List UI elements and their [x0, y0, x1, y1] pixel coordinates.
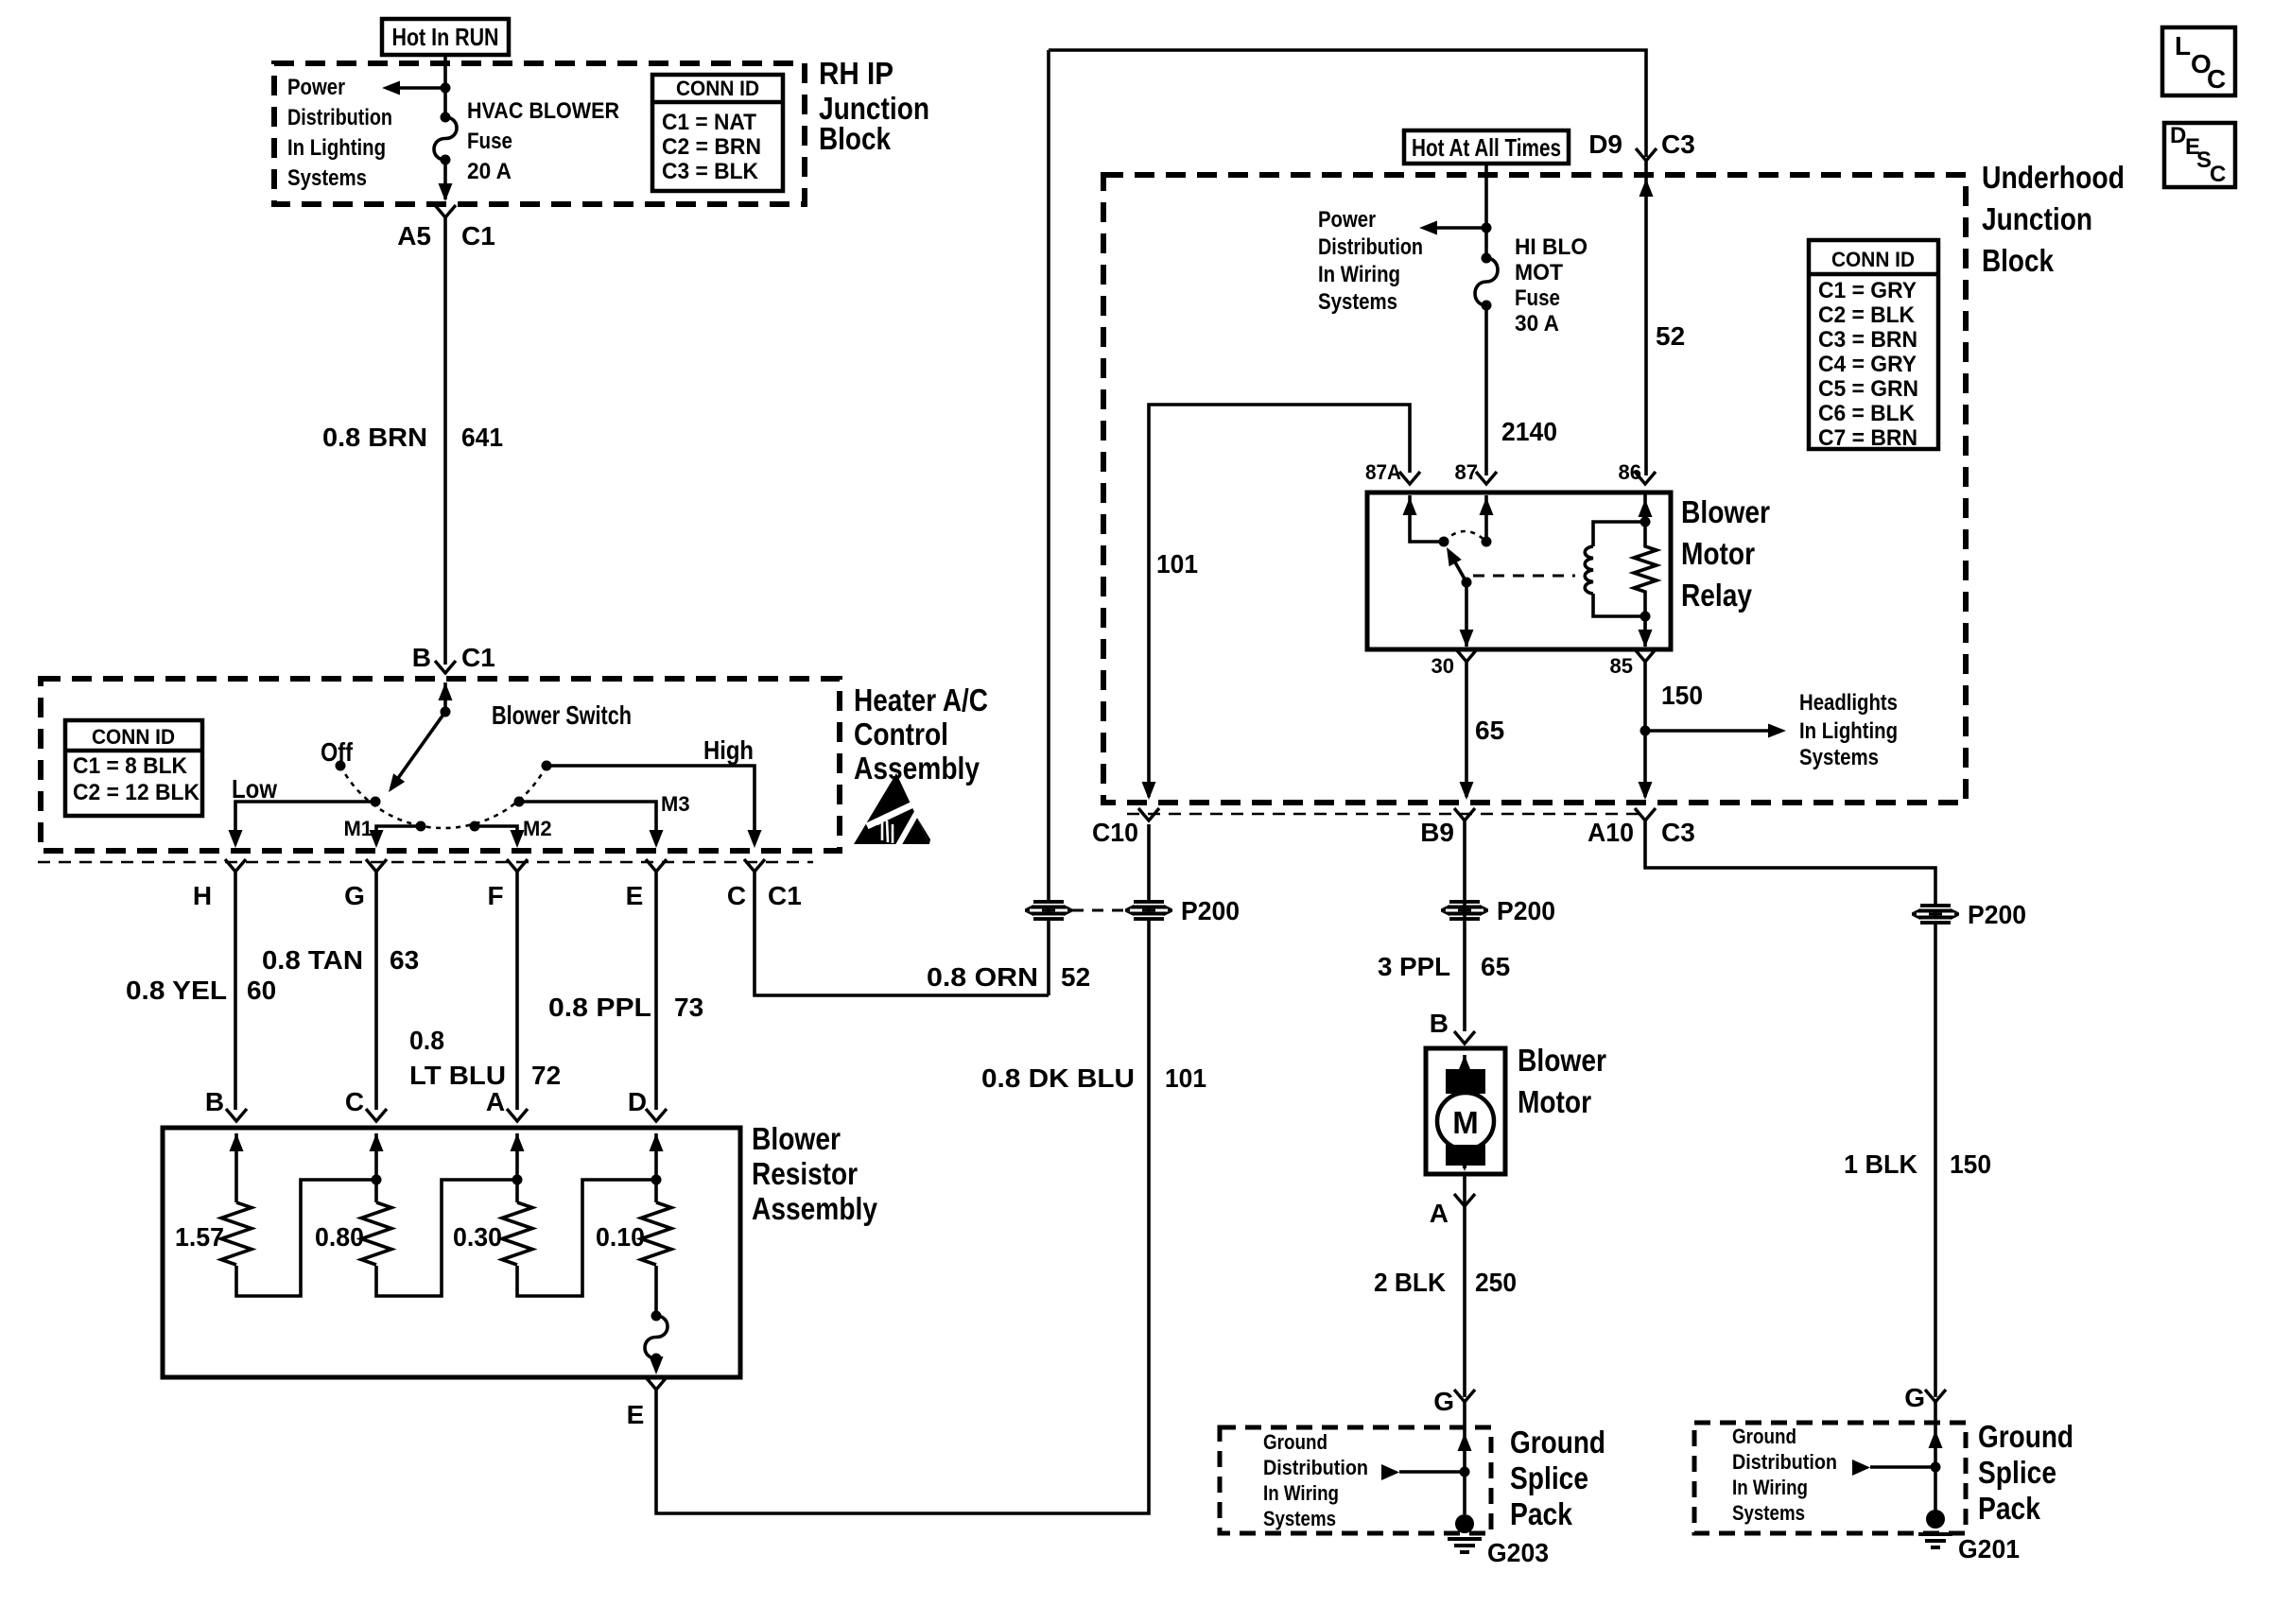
svg-text:65: 65	[1481, 952, 1510, 981]
svg-text:Distribution: Distribution	[1732, 1450, 1837, 1474]
svg-text:C1 = NAT: C1 = NAT	[662, 110, 756, 135]
svg-text:C1 = 8 BLK: C1 = 8 BLK	[73, 753, 188, 779]
svg-text:C1: C1	[768, 881, 802, 910]
svg-text:CONN ID: CONN ID	[676, 77, 759, 100]
svg-text:Resistor: Resistor	[752, 1156, 858, 1191]
svg-text:D9: D9	[1588, 130, 1622, 159]
svg-text:101: 101	[1156, 549, 1198, 579]
svg-text:0.8 PPL: 0.8 PPL	[548, 993, 651, 1022]
svg-text:Underhood: Underhood	[1982, 160, 2125, 195]
svg-text:0.10: 0.10	[596, 1222, 645, 1252]
svg-text:C2 = BRN: C2 = BRN	[662, 134, 761, 160]
svg-text:B: B	[205, 1087, 224, 1116]
svg-text:Hot At All Times: Hot At All Times	[1412, 133, 1561, 162]
svg-text:Hot In RUN: Hot In RUN	[392, 23, 499, 51]
svg-text:Assembly: Assembly	[854, 751, 980, 786]
svg-text:In Wiring: In Wiring	[1318, 262, 1400, 287]
svg-text:P200: P200	[1968, 900, 2026, 929]
svg-text:150: 150	[1950, 1149, 1991, 1179]
svg-text:0.80: 0.80	[315, 1222, 364, 1252]
svg-text:H: H	[193, 881, 212, 910]
svg-text:72: 72	[531, 1061, 561, 1090]
svg-text:101: 101	[1165, 1063, 1206, 1093]
svg-text:250: 250	[1475, 1268, 1517, 1297]
svg-text:Systems: Systems	[287, 165, 367, 191]
svg-text:30: 30	[1431, 654, 1454, 678]
svg-text:1 BLK: 1 BLK	[1844, 1149, 1917, 1179]
svg-text:C5 = GRN: C5 = GRN	[1818, 376, 1918, 402]
svg-text:87: 87	[1455, 460, 1478, 484]
svg-text:Splice: Splice	[1978, 1455, 2056, 1490]
svg-text:M1: M1	[343, 817, 373, 840]
svg-text:Blower: Blower	[752, 1121, 841, 1156]
svg-text:C3 = BLK: C3 = BLK	[662, 159, 759, 184]
svg-text:C: C	[2207, 64, 2226, 94]
svg-text:87A: 87A	[1365, 460, 1401, 484]
svg-text:C3: C3	[1661, 818, 1695, 847]
svg-text:High: High	[703, 735, 754, 765]
svg-text:C: C	[345, 1087, 364, 1116]
svg-text:C3: C3	[1661, 130, 1695, 159]
svg-text:C10: C10	[1092, 818, 1138, 847]
svg-text:G203: G203	[1487, 1538, 1549, 1567]
svg-text:HI BLO: HI BLO	[1515, 234, 1588, 260]
svg-text:M3: M3	[661, 792, 690, 816]
svg-text:85: 85	[1610, 654, 1633, 678]
svg-text:C7 = BRN: C7 = BRN	[1818, 425, 1917, 451]
svg-text:P200: P200	[1181, 896, 1240, 925]
svg-text:Relay: Relay	[1681, 578, 1753, 613]
svg-text:Distribution: Distribution	[1263, 1456, 1368, 1479]
svg-text:Power: Power	[287, 75, 345, 100]
svg-text:Blower: Blower	[1518, 1043, 1606, 1078]
svg-text:52: 52	[1061, 962, 1090, 992]
svg-text:L: L	[2175, 31, 2191, 60]
svg-text:Fuse: Fuse	[1515, 285, 1560, 311]
svg-text:52: 52	[1656, 321, 1685, 351]
svg-text:Distribution: Distribution	[287, 105, 392, 130]
svg-text:G201: G201	[1958, 1534, 2020, 1564]
svg-text:C: C	[2210, 162, 2226, 187]
svg-text:0.8: 0.8	[409, 1026, 444, 1055]
svg-text:B9: B9	[1420, 818, 1454, 847]
svg-text:Systems: Systems	[1799, 745, 1879, 770]
svg-text:MOT: MOT	[1515, 260, 1563, 285]
svg-text:0.8 TAN: 0.8 TAN	[262, 945, 363, 975]
svg-text:2140: 2140	[1501, 417, 1557, 446]
svg-text:Assembly: Assembly	[752, 1191, 878, 1226]
svg-text:RH IP: RH IP	[819, 56, 894, 91]
svg-text:Block: Block	[819, 121, 892, 156]
svg-text:20 A: 20 A	[467, 159, 512, 184]
svg-text:60: 60	[247, 976, 276, 1005]
svg-text:Block: Block	[1982, 243, 2055, 278]
svg-text:Ground: Ground	[1978, 1419, 2073, 1454]
svg-text:Fuse: Fuse	[467, 129, 512, 154]
svg-text:Off: Off	[321, 737, 354, 767]
svg-text:2 BLK: 2 BLK	[1374, 1268, 1446, 1297]
svg-text:73: 73	[674, 993, 703, 1022]
svg-text:C2 = BLK: C2 = BLK	[1818, 302, 1916, 328]
svg-text:A: A	[1430, 1199, 1449, 1228]
svg-text:A10: A10	[1588, 818, 1634, 847]
svg-text:Ground: Ground	[1263, 1430, 1327, 1454]
svg-text:C1 = GRY: C1 = GRY	[1818, 278, 1917, 303]
svg-text:G: G	[344, 881, 365, 910]
svg-text:Low: Low	[232, 774, 277, 803]
svg-text:G: G	[1904, 1383, 1925, 1412]
svg-text:CONN ID: CONN ID	[1831, 248, 1915, 271]
svg-text:M: M	[1452, 1105, 1479, 1140]
svg-text:0.30: 0.30	[453, 1222, 502, 1252]
svg-text:CONN ID: CONN ID	[92, 725, 175, 749]
svg-text:In Lighting: In Lighting	[1799, 718, 1898, 744]
svg-text:D: D	[628, 1087, 647, 1116]
svg-text:Pack: Pack	[1510, 1496, 1573, 1531]
svg-text:150: 150	[1661, 681, 1703, 710]
svg-text:Distribution: Distribution	[1318, 234, 1423, 260]
svg-text:Systems: Systems	[1732, 1501, 1805, 1525]
svg-text:Systems: Systems	[1263, 1507, 1336, 1530]
svg-text:63: 63	[390, 945, 419, 975]
svg-text:65: 65	[1475, 716, 1504, 745]
svg-text:M2: M2	[523, 817, 552, 840]
svg-text:Blower Switch: Blower Switch	[492, 700, 632, 730]
svg-text:Pack: Pack	[1978, 1491, 2041, 1526]
svg-text:Control: Control	[854, 717, 948, 752]
svg-text:C4 = GRY: C4 = GRY	[1818, 352, 1917, 377]
svg-text:P200: P200	[1497, 896, 1555, 925]
svg-text:641: 641	[461, 423, 503, 452]
svg-text:C3 = BRN: C3 = BRN	[1818, 327, 1917, 353]
svg-text:Headlights: Headlights	[1799, 690, 1898, 716]
svg-text:Power: Power	[1318, 207, 1376, 233]
svg-text:Motor: Motor	[1518, 1084, 1591, 1119]
svg-text:Heater A/C: Heater A/C	[854, 682, 988, 717]
svg-text:E: E	[626, 881, 644, 910]
svg-text:In Lighting: In Lighting	[287, 135, 386, 161]
svg-text:G: G	[1433, 1387, 1454, 1416]
svg-text:LT BLU: LT BLU	[409, 1061, 506, 1090]
svg-text:HVAC BLOWER: HVAC BLOWER	[467, 98, 619, 124]
svg-text:Splice: Splice	[1510, 1460, 1588, 1495]
svg-text:0.8 ORN: 0.8 ORN	[927, 962, 1038, 992]
svg-text:Ground: Ground	[1510, 1425, 1605, 1460]
svg-text:Junction: Junction	[1982, 201, 2092, 236]
svg-text:B: B	[1430, 1009, 1449, 1038]
svg-text:1.57: 1.57	[175, 1222, 224, 1252]
svg-text:C2 = 12 BLK: C2 = 12 BLK	[73, 780, 200, 805]
svg-text:0.8 DK BLU: 0.8 DK BLU	[981, 1063, 1135, 1093]
svg-text:C1: C1	[461, 643, 495, 672]
svg-text:C: C	[727, 881, 746, 910]
svg-text:A5: A5	[397, 221, 431, 251]
svg-text:In Wiring: In Wiring	[1732, 1476, 1808, 1499]
svg-text:Motor: Motor	[1681, 536, 1755, 571]
svg-text:Blower: Blower	[1681, 494, 1770, 529]
svg-text:A: A	[486, 1087, 505, 1116]
svg-text:86: 86	[1619, 460, 1641, 484]
svg-text:E: E	[627, 1400, 645, 1429]
svg-text:Systems: Systems	[1318, 289, 1397, 315]
svg-text:B: B	[412, 643, 431, 672]
svg-text:D: D	[2170, 123, 2186, 148]
svg-text:C1: C1	[461, 221, 495, 251]
svg-text:0.8 YEL: 0.8 YEL	[126, 976, 227, 1005]
svg-text:C6 = BLK: C6 = BLK	[1818, 401, 1916, 426]
svg-text:F: F	[487, 881, 503, 910]
svg-text:Ground: Ground	[1732, 1425, 1796, 1448]
svg-text:3 PPL: 3 PPL	[1378, 952, 1450, 981]
svg-text:30 A: 30 A	[1515, 311, 1559, 337]
svg-text:In Wiring: In Wiring	[1263, 1481, 1339, 1505]
svg-text:0.8 BRN: 0.8 BRN	[322, 423, 427, 452]
